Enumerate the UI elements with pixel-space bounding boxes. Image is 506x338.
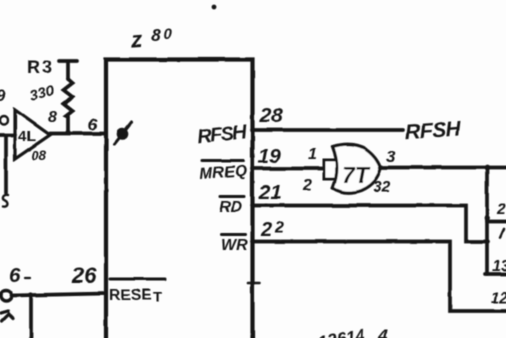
svg-text:26: 26 xyxy=(71,263,97,288)
svg-text:330: 330 xyxy=(28,83,55,104)
wire: gate output to right edge xyxy=(380,166,506,170)
svg-text:RD: RD xyxy=(219,199,243,216)
connector node (RESET input, left edge) xyxy=(1,291,12,302)
power rail tick (pull-up supply) xyxy=(59,61,77,79)
wire: branch down from reset wire xyxy=(29,295,33,338)
svg-text:6: 6 xyxy=(88,115,98,134)
tick after 6 xyxy=(25,277,30,279)
wire: drop below buffer input xyxy=(4,136,8,193)
wire: reset input to Z80 pin 26 xyxy=(11,294,106,296)
wire: buffer output to Z80 pin 6 xyxy=(50,132,106,136)
svg-text:2: 2 xyxy=(496,201,506,218)
junction at resistor bottom xyxy=(65,130,70,135)
pin number 1 (right edge) xyxy=(500,229,504,238)
junction on bus xyxy=(484,215,490,221)
label Z80 xyxy=(129,25,173,53)
svg-text:9: 9 xyxy=(0,86,6,105)
svg-text:MREQ: MREQ xyxy=(199,163,249,183)
svg-text:8: 8 xyxy=(151,25,161,45)
svg-text:4: 4 xyxy=(377,326,388,338)
svg-text:2: 2 xyxy=(274,220,284,237)
squiggle end (delta mark) xyxy=(3,195,8,207)
svg-text:3: 3 xyxy=(386,147,396,166)
svg-text:8: 8 xyxy=(48,109,57,126)
IC U1 Z80 CPU (box outline) xyxy=(106,60,253,338)
svg-text:,12614: ,12614 xyxy=(311,326,367,338)
signal label MREQ inside Z80 (with overline) xyxy=(199,161,249,183)
stray ink dot xyxy=(212,5,217,10)
OR gate U3 body xyxy=(333,145,381,193)
wire: bus turn to right edge xyxy=(485,272,506,276)
wire: vertical bus at right xyxy=(485,168,489,275)
wire: stub to right edge xyxy=(487,220,506,224)
pin tick on Z80 right edge xyxy=(248,281,260,284)
connector node (clock input, left edge) xyxy=(0,116,8,124)
signal label WR inside Z80 (with overline) xyxy=(221,235,248,255)
wire: RFSH from pin 28 xyxy=(252,128,403,132)
svg-text:7T: 7T xyxy=(342,162,371,188)
svg-text:0: 0 xyxy=(164,26,173,43)
svg-text:T: T xyxy=(153,289,162,306)
wire: WR from pin 22, routed right and down xyxy=(252,242,506,312)
wire: RD from pin 21, routed right and down xyxy=(252,206,488,242)
svg-text:RFSH: RFSH xyxy=(196,121,248,148)
signal label RESET inside Z80 (with overline) xyxy=(109,279,165,306)
svg-text:4L: 4L xyxy=(18,128,36,145)
svg-text:2: 2 xyxy=(260,219,272,241)
buffer gate U2 (triangle) xyxy=(15,110,50,159)
svg-text:28: 28 xyxy=(259,104,283,127)
svg-text:RFSH: RFSH xyxy=(404,117,462,144)
svg-text:1: 1 xyxy=(308,146,317,163)
svg-text:13: 13 xyxy=(492,258,506,275)
signal label RD inside Z80 (with overline) xyxy=(219,197,244,217)
wire: MREQ from pin 19 to gate input xyxy=(252,167,324,171)
wire: clock input into buffer xyxy=(0,133,15,137)
svg-text:32: 32 xyxy=(373,179,391,196)
svg-text:21: 21 xyxy=(258,181,282,204)
svg-text:R3: R3 xyxy=(27,57,54,77)
junction on reset wire xyxy=(28,292,33,297)
svg-text:19: 19 xyxy=(258,145,281,168)
svg-text:WR: WR xyxy=(221,237,248,254)
svg-text:2: 2 xyxy=(302,177,312,194)
svg-text:12: 12 xyxy=(491,290,506,307)
squiggle below reset connector xyxy=(1,311,13,321)
svg-text:6: 6 xyxy=(9,264,21,287)
svg-text:z: z xyxy=(129,26,144,53)
pin number 22 xyxy=(260,219,284,241)
junction at gate output bus xyxy=(484,165,490,171)
OR gate U3 input block xyxy=(324,160,338,179)
clock phi symbol inside Z80 xyxy=(115,123,132,145)
svg-text:RESE: RESE xyxy=(109,287,151,304)
svg-text:08: 08 xyxy=(31,148,47,163)
resistor R1 zigzag body xyxy=(64,79,73,131)
handwritten note 12614 (bottom, cut off) xyxy=(311,326,388,338)
